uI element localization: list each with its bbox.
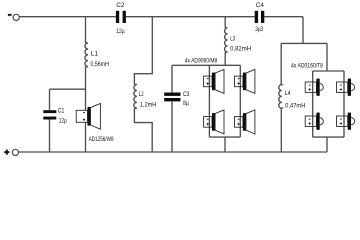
speaker AD1256/W8 woofer [76,103,100,129]
svg-text:C4: C4 [256,2,264,9]
wire L4 bottom lead [280,108,282,152]
svg-text:AD1256/W8: AD1256/W8 [89,136,114,143]
capacitor C4 [255,11,258,23]
wire midrange top bus [172,64,240,66]
inductor L3 [225,28,228,53]
svg-text:L2: L2 [139,91,144,98]
speaker midrange bottom-left [204,110,224,134]
wire C1 branch horizontal [50,88,86,90]
wire top rail segment 1 [19,16,116,18]
wire top rail segment 3 [264,16,303,18]
capacitor C3 [164,93,180,96]
speaker midrange bottom-right [235,110,255,134]
svg-text:L4: L4 [285,90,291,97]
wire midrange bottom bus [209,136,240,138]
speaker midrange top-left [204,69,224,93]
capacitor C2 [116,11,119,23]
inductor L1 [85,43,88,67]
wire L3 bottom lead [224,52,226,65]
svg-text:3µ3: 3µ3 [255,26,263,33]
wire top rail corner down at right end [302,17,304,44]
svg-text:1,2mH: 1,2mH [140,102,157,109]
wire L1 to woofer [85,67,87,111]
wire midrange drop to bottom rail [224,137,226,152]
wire L3 top lead [224,17,226,28]
svg-text:0,82mH: 0,82mH [230,46,251,53]
svg-text:4x AD0160/T8: 4x AD0160/T8 [291,63,323,70]
svg-text:L1: L1 [91,51,99,58]
svg-text:12µ: 12µ [59,118,67,125]
wire node after C2 drop [134,17,152,85]
wire C1 bottom lead [49,120,51,153]
wire tweeter feed drop [326,43,328,71]
svg-text:8µ: 8µ [183,100,189,107]
wire tweeter left rail [312,71,314,137]
speaker tweeter bottom-left [305,113,323,130]
speaker tweeter top-right [337,79,355,96]
svg-text:4x AD9060/M8: 4x AD9060/M8 [185,57,218,64]
svg-text:C3: C3 [183,91,190,98]
wire tweeter bottom bus [313,136,344,138]
wire top rail segment 2 [126,16,255,18]
wire C3 bottom lead [171,101,173,152]
speaker tweeter bottom-right [337,113,355,130]
wire midrange left rail [208,65,210,137]
wire bottom rail [19,151,328,153]
speaker midrange top-right [235,69,255,93]
svg-text:C1: C1 [58,107,65,114]
wire L1 drop from top rail [85,17,87,43]
wire C1 top lead [49,89,51,110]
wire tweeter top bus [313,70,344,72]
wire L4 top lead [280,43,282,84]
inductor L4 [279,84,282,108]
capacitor C1 [43,110,56,113]
wire horizontal node to tweeter [281,42,327,44]
wire L2 bottom jog to bottom rail [134,108,152,152]
svg-text:0,47mH: 0,47mH [285,103,306,110]
minus input terminal [8,14,12,16]
plus input terminal [4,151,9,153]
inductor L2 [134,84,137,108]
wire midrange right rail [239,65,241,137]
svg-text:L3: L3 [230,36,235,43]
wire tweeter right rail [343,71,345,137]
speaker tweeter top-left [305,79,323,96]
wire tweeter drop to bottom rail [326,137,328,152]
wire woofer to bottom rail [85,122,87,152]
svg-text:C2: C2 [116,2,124,9]
wire C3 top lead from mid bus [171,65,173,92]
svg-text:0,56mH: 0,56mH [90,61,109,68]
svg-text:12µ: 12µ [116,28,125,35]
